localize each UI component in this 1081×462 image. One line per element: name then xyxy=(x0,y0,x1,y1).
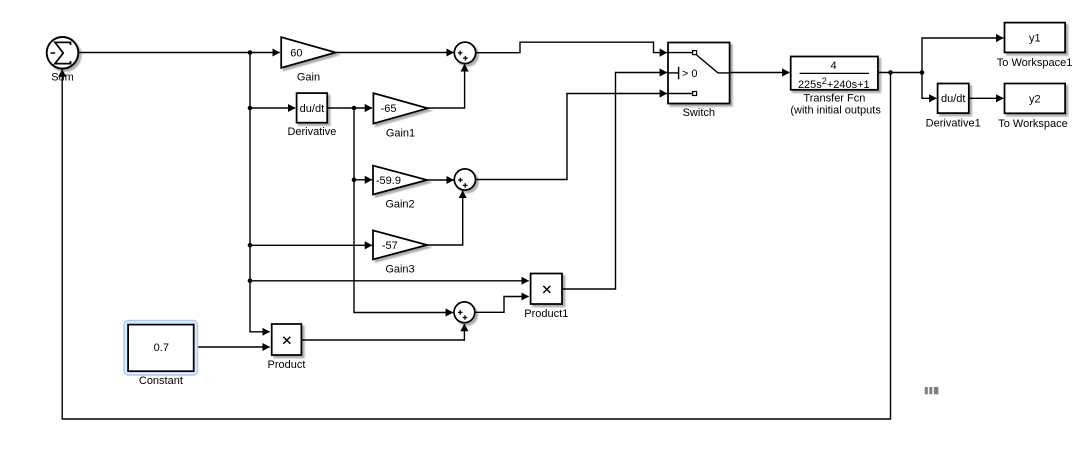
svg-text:y1: y1 xyxy=(1029,33,1041,45)
svg-text:Gain: Gain xyxy=(297,71,320,83)
svg-text:Transfer Fcn: Transfer Fcn xyxy=(803,93,865,105)
svg-text:Product1: Product1 xyxy=(524,308,568,320)
svg-text:Product: Product xyxy=(268,359,306,371)
svg-text:4: 4 xyxy=(830,60,836,72)
svg-text:60: 60 xyxy=(290,47,302,59)
svg-text:Gain3: Gain3 xyxy=(385,264,414,276)
svg-text:(with initial outputs: (with initial outputs xyxy=(790,104,881,116)
svg-text:To Workspace: To Workspace xyxy=(998,118,1068,130)
svg-text:-57: -57 xyxy=(382,240,398,252)
svg-text:Constant: Constant xyxy=(139,375,183,387)
svg-text:-59.9: -59.9 xyxy=(376,175,401,187)
svg-text:225s2+240s+1: 225s2+240s+1 xyxy=(798,76,870,91)
svg-text:Switch: Switch xyxy=(683,107,715,119)
svg-text:Derivative: Derivative xyxy=(287,126,336,138)
svg-text:y2: y2 xyxy=(1029,93,1041,105)
svg-text:Gain1: Gain1 xyxy=(386,128,415,140)
svg-text:-65: -65 xyxy=(381,103,397,115)
svg-text:0.7: 0.7 xyxy=(154,342,169,354)
svg-text:Derivative1: Derivative1 xyxy=(926,117,981,129)
svg-text:> 0: > 0 xyxy=(682,68,698,80)
svg-text:du/dt: du/dt xyxy=(300,103,324,115)
svg-text:Gain2: Gain2 xyxy=(385,199,414,211)
svg-text:Sum: Sum xyxy=(51,71,74,83)
svg-text:To Workspace1: To Workspace1 xyxy=(997,57,1073,69)
svg-text:du/dt: du/dt xyxy=(941,93,965,105)
